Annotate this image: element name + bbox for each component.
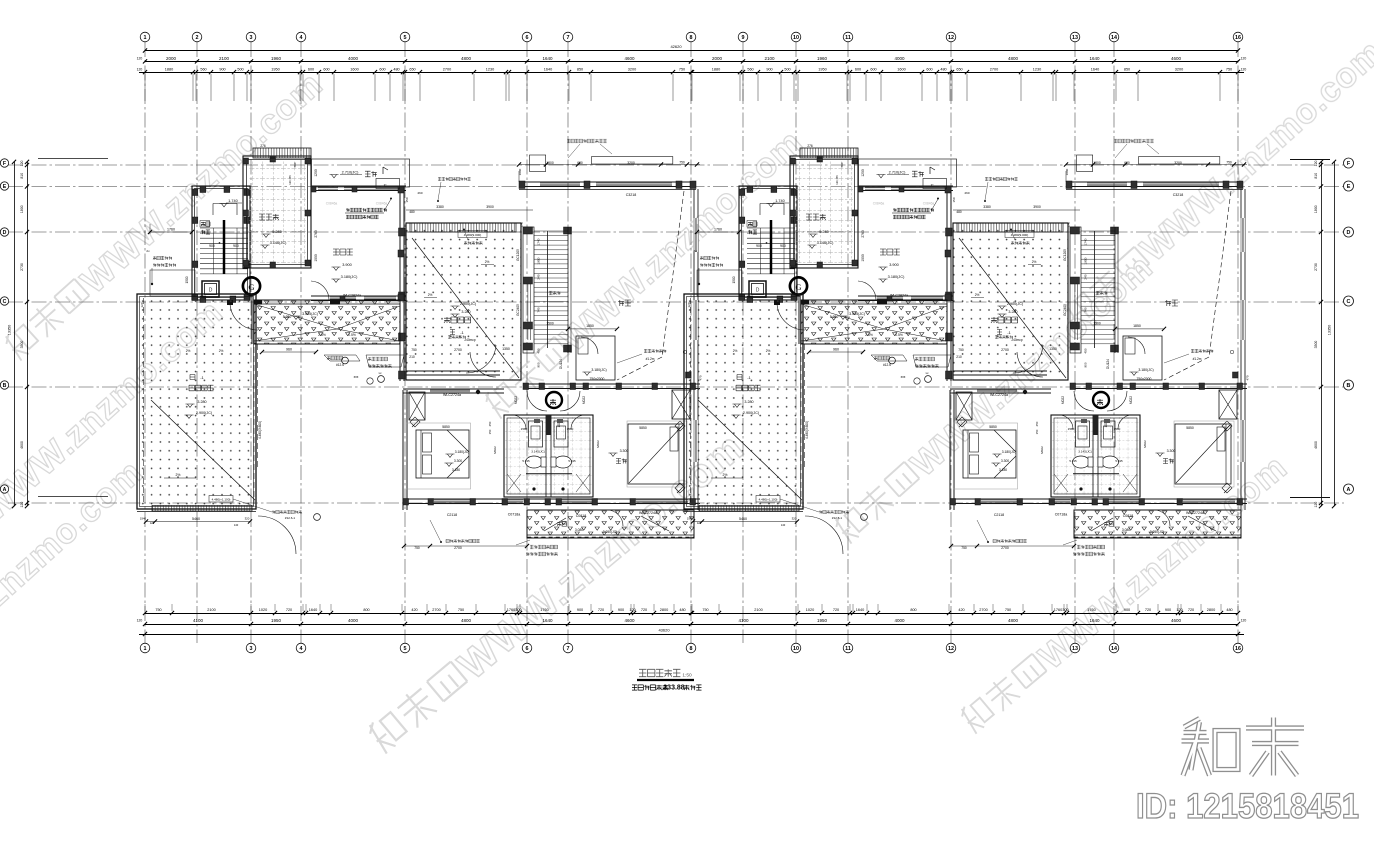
svg-text:900: 900 bbox=[233, 244, 239, 248]
svg-text:5460: 5460 bbox=[192, 517, 200, 521]
svg-text:480: 480 bbox=[940, 68, 946, 72]
svg-text:4.480(+1.100): 4.480(+1.100) bbox=[212, 498, 231, 502]
svg-text:120: 120 bbox=[1241, 67, 1247, 71]
svg-text:6: 6 bbox=[526, 35, 529, 41]
svg-text:2800: 2800 bbox=[1207, 608, 1215, 612]
svg-text:900: 900 bbox=[1165, 608, 1171, 612]
svg-text:4000: 4000 bbox=[348, 618, 359, 623]
svg-text:420: 420 bbox=[958, 608, 964, 612]
svg-text:3.145(JC): 3.145(JC) bbox=[531, 450, 545, 454]
svg-text:5: 5 bbox=[404, 646, 407, 652]
svg-text:720: 720 bbox=[641, 608, 647, 612]
svg-text:4000: 4000 bbox=[894, 618, 905, 623]
svg-text:3.146(JC): 3.146(JC) bbox=[270, 241, 287, 245]
svg-text:12: 12 bbox=[948, 35, 954, 41]
svg-text:1020: 1020 bbox=[259, 608, 267, 612]
svg-text:900: 900 bbox=[537, 362, 541, 367]
svg-text:2700: 2700 bbox=[443, 68, 451, 72]
svg-text:WLC2724a: WLC2724a bbox=[443, 393, 461, 397]
svg-text:120: 120 bbox=[140, 302, 144, 307]
svg-text:1640: 1640 bbox=[544, 68, 552, 72]
svg-text:1230: 1230 bbox=[1033, 68, 1041, 72]
svg-text:8: 8 bbox=[690, 646, 693, 652]
svg-text:1850: 1850 bbox=[586, 324, 594, 328]
svg-text:720: 720 bbox=[833, 608, 839, 612]
svg-text:560: 560 bbox=[200, 68, 206, 72]
svg-text:3: 3 bbox=[250, 35, 253, 41]
svg-text:1020: 1020 bbox=[806, 608, 814, 612]
svg-text:900: 900 bbox=[209, 244, 215, 248]
svg-text:600: 600 bbox=[855, 68, 861, 72]
svg-text:1940: 1940 bbox=[140, 517, 147, 521]
svg-text:3200: 3200 bbox=[1175, 68, 1183, 72]
svg-text:4600: 4600 bbox=[20, 441, 24, 449]
svg-text:2700: 2700 bbox=[432, 608, 440, 612]
svg-text:13350: 13350 bbox=[1328, 325, 1332, 336]
svg-text:F: F bbox=[3, 161, 6, 167]
svg-text:1950: 1950 bbox=[537, 257, 541, 264]
svg-text:#12.6-1: #12.6-1 bbox=[285, 516, 296, 520]
svg-text:D: D bbox=[1347, 230, 1351, 236]
svg-text:C0846a: C0846a bbox=[326, 202, 338, 206]
svg-text:M022: M022 bbox=[514, 396, 518, 404]
svg-text:2: 2 bbox=[196, 35, 199, 41]
svg-text:E: E bbox=[1347, 184, 1351, 190]
svg-text:2%: 2% bbox=[186, 349, 191, 353]
svg-text:720: 720 bbox=[598, 608, 604, 612]
svg-text:750: 750 bbox=[679, 161, 685, 165]
svg-text:4: 4 bbox=[300, 646, 303, 652]
svg-text:750: 750 bbox=[458, 608, 464, 612]
svg-text:1800: 1800 bbox=[20, 205, 24, 213]
svg-text:2100: 2100 bbox=[754, 608, 762, 612]
svg-text:750: 750 bbox=[1226, 68, 1232, 72]
svg-text:2100: 2100 bbox=[764, 56, 775, 61]
svg-text:C0718a: C0718a bbox=[508, 513, 521, 517]
svg-text:600: 600 bbox=[870, 68, 876, 72]
svg-text:2730: 2730 bbox=[1314, 263, 1318, 271]
svg-text:1:50: 1:50 bbox=[682, 673, 692, 679]
svg-text:3900: 3900 bbox=[486, 205, 494, 209]
svg-text:120: 120 bbox=[1314, 160, 1318, 166]
svg-text:120: 120 bbox=[150, 521, 155, 525]
svg-text:120: 120 bbox=[137, 619, 143, 623]
svg-text:140: 140 bbox=[234, 523, 239, 527]
svg-text:4600: 4600 bbox=[624, 618, 635, 623]
svg-text:43620: 43620 bbox=[658, 628, 670, 633]
svg-text:500: 500 bbox=[237, 68, 243, 72]
svg-text:GC1205: GC1205 bbox=[516, 249, 520, 261]
svg-text:4800: 4800 bbox=[461, 618, 472, 623]
svg-text:720: 720 bbox=[1145, 608, 1151, 612]
svg-text:1740: 1740 bbox=[537, 238, 541, 245]
svg-text:4600: 4600 bbox=[1171, 618, 1182, 623]
svg-text:650: 650 bbox=[956, 68, 962, 72]
svg-text:C0846a: C0846a bbox=[376, 202, 388, 206]
svg-text:42620: 42620 bbox=[670, 44, 682, 49]
svg-text:1950: 1950 bbox=[818, 68, 826, 72]
svg-text:xxx: xxx bbox=[354, 375, 359, 379]
svg-text:1640: 1640 bbox=[542, 56, 553, 61]
svg-text:16: 16 bbox=[1235, 646, 1241, 652]
svg-text:2100: 2100 bbox=[219, 56, 230, 61]
svg-text:720: 720 bbox=[1188, 608, 1194, 612]
svg-text:900: 900 bbox=[219, 68, 225, 72]
svg-text:120,155: 120,155 bbox=[288, 175, 292, 185]
svg-text:1960: 1960 bbox=[817, 56, 828, 61]
svg-text:B: B bbox=[3, 383, 7, 389]
svg-text:240mcp: 240mcp bbox=[464, 338, 476, 342]
svg-text:1200: 1200 bbox=[314, 169, 318, 177]
svg-text:2800: 2800 bbox=[660, 608, 668, 612]
svg-text:120: 120 bbox=[629, 608, 635, 612]
svg-text:810: 810 bbox=[20, 173, 24, 179]
svg-text:120: 120 bbox=[1241, 57, 1247, 61]
svg-text:1600: 1600 bbox=[897, 68, 905, 72]
svg-text:5.285: 5.285 bbox=[272, 230, 282, 234]
svg-text:120: 120 bbox=[1241, 619, 1247, 623]
svg-text:13350: 13350 bbox=[8, 325, 12, 336]
svg-text:750: 750 bbox=[1005, 608, 1011, 612]
svg-text:260: 260 bbox=[417, 191, 422, 195]
svg-text:650: 650 bbox=[409, 68, 415, 72]
svg-text:2.5%: 2.5% bbox=[318, 333, 326, 337]
svg-text:A: A bbox=[1347, 487, 1351, 493]
svg-text:M022: M022 bbox=[596, 440, 600, 448]
svg-text:1230: 1230 bbox=[486, 68, 494, 72]
svg-text:2%: 2% bbox=[176, 473, 181, 477]
svg-text:1640: 1640 bbox=[1091, 68, 1099, 72]
svg-text:3.180(JC): 3.180(JC) bbox=[341, 275, 358, 279]
svg-text:480: 480 bbox=[1226, 608, 1232, 612]
svg-text:1580: 1580 bbox=[567, 427, 574, 431]
svg-text:2%: 2% bbox=[485, 260, 490, 264]
svg-text:750: 750 bbox=[155, 608, 161, 612]
svg-text:600: 600 bbox=[926, 68, 932, 72]
svg-text:3300: 3300 bbox=[20, 341, 24, 349]
svg-text:C: C bbox=[3, 299, 7, 305]
svg-text:C: C bbox=[1347, 299, 1351, 305]
svg-text:11: 11 bbox=[845, 35, 851, 41]
svg-text:750: 750 bbox=[702, 608, 708, 612]
svg-text:2730: 2730 bbox=[20, 263, 24, 271]
svg-text:D: D bbox=[209, 288, 213, 294]
svg-text:9: 9 bbox=[742, 35, 745, 41]
svg-text:750x2000: 750x2000 bbox=[590, 377, 605, 381]
svg-text:240: 240 bbox=[537, 274, 541, 279]
svg-text:1880: 1880 bbox=[712, 68, 720, 72]
svg-text:1: 1 bbox=[144, 646, 147, 652]
svg-text:#1.2m: #1.2m bbox=[646, 357, 655, 361]
svg-text:150: 150 bbox=[488, 429, 492, 434]
svg-text:5850: 5850 bbox=[639, 426, 647, 430]
svg-text:3.300: 3.300 bbox=[454, 459, 462, 463]
svg-text:4800: 4800 bbox=[1008, 56, 1019, 61]
svg-text:4.480(3.600): 4.480(3.600) bbox=[258, 421, 262, 439]
svg-text:1950: 1950 bbox=[271, 68, 279, 72]
svg-text:A: A bbox=[3, 487, 7, 493]
svg-text:750: 750 bbox=[411, 348, 417, 352]
svg-text:800: 800 bbox=[910, 608, 916, 612]
svg-text:500: 500 bbox=[784, 68, 790, 72]
svg-text:C3218: C3218 bbox=[626, 193, 637, 197]
svg-text:120: 120 bbox=[20, 502, 24, 508]
svg-text:210: 210 bbox=[409, 355, 415, 359]
svg-text:E: E bbox=[3, 184, 7, 190]
svg-text:800: 800 bbox=[363, 608, 369, 612]
svg-text:G: G bbox=[248, 282, 254, 292]
svg-text:4800: 4800 bbox=[1008, 618, 1019, 623]
svg-text:8: 8 bbox=[690, 35, 693, 41]
svg-text:3.080: 3.080 bbox=[575, 528, 583, 532]
svg-text:12: 12 bbox=[948, 646, 954, 652]
svg-text:276: 276 bbox=[260, 144, 266, 148]
svg-text:4100: 4100 bbox=[193, 618, 204, 623]
svg-text:3300: 3300 bbox=[1314, 341, 1318, 349]
svg-text:16: 16 bbox=[1235, 35, 1241, 41]
svg-text:900: 900 bbox=[1124, 608, 1130, 612]
svg-text:120: 120 bbox=[1314, 502, 1318, 508]
svg-text:600: 600 bbox=[293, 162, 297, 167]
svg-text:4: 4 bbox=[300, 35, 303, 41]
svg-text:320: 320 bbox=[245, 517, 250, 521]
svg-text:3.180: 3.180 bbox=[452, 468, 460, 472]
svg-text:xx: xx bbox=[379, 371, 383, 375]
svg-text:1000: 1000 bbox=[314, 254, 318, 262]
svg-text:3.300: 3.300 bbox=[620, 449, 629, 453]
svg-text:750: 750 bbox=[414, 546, 420, 550]
svg-text:740: 740 bbox=[537, 307, 541, 312]
svg-text:850: 850 bbox=[577, 68, 583, 72]
svg-text:3.280: 3.280 bbox=[461, 310, 470, 314]
svg-text:600: 600 bbox=[379, 68, 385, 72]
svg-text:2x: 2x bbox=[146, 249, 150, 253]
svg-text:480: 480 bbox=[679, 608, 685, 612]
svg-text:JC: JC bbox=[383, 183, 386, 187]
svg-text:1600: 1600 bbox=[350, 68, 358, 72]
svg-text:11: 11 bbox=[845, 646, 851, 652]
svg-text:4000: 4000 bbox=[348, 56, 359, 61]
svg-text:14: 14 bbox=[1111, 35, 1117, 41]
svg-text:850: 850 bbox=[1124, 68, 1130, 72]
svg-text:120: 120 bbox=[137, 57, 143, 61]
svg-text:3.035(JC): 3.035(JC) bbox=[302, 312, 318, 316]
svg-text:680: 680 bbox=[577, 161, 583, 165]
svg-text:900: 900 bbox=[618, 608, 624, 612]
svg-text:450: 450 bbox=[537, 348, 541, 353]
svg-text:B: B bbox=[1347, 383, 1351, 389]
svg-text:1760: 1760 bbox=[507, 608, 515, 612]
svg-text:600: 600 bbox=[323, 68, 329, 72]
svg-text:4800: 4800 bbox=[461, 56, 472, 61]
svg-text:5.280: 5.280 bbox=[283, 315, 292, 319]
svg-text:3: 3 bbox=[250, 646, 253, 652]
svg-text:4600: 4600 bbox=[624, 56, 635, 61]
svg-text:2%: 2% bbox=[428, 293, 433, 297]
svg-text:1950: 1950 bbox=[817, 618, 828, 623]
svg-text:120: 120 bbox=[20, 160, 24, 166]
svg-text:GC2405: GC2405 bbox=[516, 304, 520, 316]
svg-text:2100: 2100 bbox=[207, 608, 215, 612]
svg-text:2%: 2% bbox=[219, 349, 224, 353]
svg-text:3200: 3200 bbox=[627, 161, 635, 165]
svg-text:13: 13 bbox=[1072, 646, 1078, 652]
svg-text:1800: 1800 bbox=[546, 161, 554, 165]
svg-text:3200: 3200 bbox=[628, 68, 636, 72]
svg-text:1640: 1640 bbox=[542, 618, 553, 623]
svg-text:10: 10 bbox=[793, 35, 799, 41]
svg-text:DU124: DU124 bbox=[559, 359, 563, 369]
svg-text:810: 810 bbox=[1314, 173, 1318, 179]
svg-text:150: 150 bbox=[405, 197, 409, 202]
svg-text:3.180(JC): 3.180(JC) bbox=[591, 368, 606, 372]
svg-text:1760: 1760 bbox=[540, 608, 548, 612]
svg-text:0.5%: 0.5% bbox=[348, 333, 356, 337]
svg-text:1640: 1640 bbox=[1089, 618, 1100, 623]
svg-text:2700: 2700 bbox=[454, 546, 462, 550]
svg-text:1760: 1760 bbox=[1054, 608, 1062, 612]
svg-text:14: 14 bbox=[1111, 646, 1117, 652]
svg-text:1640: 1640 bbox=[856, 608, 864, 612]
svg-text:750: 750 bbox=[679, 68, 685, 72]
svg-text:900: 900 bbox=[766, 68, 772, 72]
svg-text:4600: 4600 bbox=[1171, 56, 1182, 61]
svg-text:2700: 2700 bbox=[990, 68, 998, 72]
svg-text:1760: 1760 bbox=[1087, 608, 1095, 612]
svg-text:7: 7 bbox=[567, 646, 570, 652]
svg-text:6: 6 bbox=[526, 646, 529, 652]
svg-text:1500: 1500 bbox=[185, 276, 189, 283]
svg-text:5.195: 5.195 bbox=[568, 459, 576, 463]
svg-text:480: 480 bbox=[409, 210, 415, 214]
svg-text:720: 720 bbox=[286, 608, 292, 612]
svg-text:1760: 1760 bbox=[167, 228, 175, 232]
svg-text:C2118: C2118 bbox=[447, 513, 457, 517]
svg-text:300: 300 bbox=[515, 608, 521, 612]
svg-text:5850: 5850 bbox=[442, 425, 450, 429]
svg-text:3.180(JC): 3.180(JC) bbox=[455, 450, 469, 454]
svg-text:480: 480 bbox=[393, 68, 399, 72]
svg-text:900: 900 bbox=[577, 608, 583, 612]
svg-text:2700: 2700 bbox=[979, 608, 987, 612]
svg-text:3.900: 3.900 bbox=[342, 263, 352, 267]
svg-text:2.900(JC): 2.900(JC) bbox=[460, 302, 476, 306]
svg-text:1640: 1640 bbox=[1089, 56, 1100, 61]
svg-text:300: 300 bbox=[1062, 608, 1068, 612]
svg-text:560: 560 bbox=[747, 68, 753, 72]
svg-text:4600: 4600 bbox=[1314, 441, 1318, 449]
svg-text:1880: 1880 bbox=[165, 68, 173, 72]
svg-text:1.740: 1.740 bbox=[228, 199, 238, 203]
svg-text:3.050(JC): 3.050(JC) bbox=[603, 530, 617, 534]
svg-text:2700: 2700 bbox=[454, 348, 462, 352]
svg-text:1580: 1580 bbox=[521, 427, 528, 431]
svg-text:250: 250 bbox=[488, 421, 492, 426]
svg-text:2000: 2000 bbox=[712, 56, 723, 61]
svg-text:1950: 1950 bbox=[271, 618, 282, 623]
svg-text:1800: 1800 bbox=[1314, 205, 1318, 213]
svg-text:3.280: 3.280 bbox=[197, 400, 206, 404]
svg-text:4100: 4100 bbox=[738, 618, 749, 623]
svg-text:600: 600 bbox=[308, 68, 314, 72]
svg-text:2760: 2760 bbox=[314, 230, 318, 238]
svg-text:2.900(JC): 2.900(JC) bbox=[196, 411, 212, 415]
svg-text:1: 1 bbox=[144, 35, 147, 41]
svg-text:13: 13 bbox=[1072, 35, 1078, 41]
svg-text:7: 7 bbox=[567, 35, 570, 41]
svg-text:120: 120 bbox=[1176, 608, 1182, 612]
svg-text:1500: 1500 bbox=[546, 322, 554, 326]
svg-text:420: 420 bbox=[411, 608, 417, 612]
svg-text:M022: M022 bbox=[582, 396, 586, 404]
svg-text:5: 5 bbox=[404, 35, 407, 41]
svg-text:WLC2824a: WLC2824a bbox=[343, 294, 361, 298]
svg-text:2000: 2000 bbox=[166, 56, 177, 61]
svg-text:120: 120 bbox=[137, 67, 143, 71]
svg-text:ID: 1215818451: ID: 1215818451 bbox=[1136, 787, 1359, 826]
svg-text:M022: M022 bbox=[493, 446, 497, 454]
svg-text:1640: 1640 bbox=[309, 608, 317, 612]
svg-text:1000: 1000 bbox=[518, 168, 522, 175]
svg-text:960: 960 bbox=[286, 348, 292, 352]
svg-text:4000: 4000 bbox=[894, 56, 905, 61]
svg-text:1350: 1350 bbox=[502, 347, 510, 351]
svg-text:5.195: 5.195 bbox=[522, 459, 530, 463]
svg-text:1960: 1960 bbox=[271, 56, 282, 61]
svg-text:D: D bbox=[3, 230, 7, 236]
svg-text:2.710(JC): 2.710(JC) bbox=[342, 171, 359, 175]
svg-text:10: 10 bbox=[793, 646, 799, 652]
svg-text:233.88: 233.88 bbox=[663, 685, 685, 692]
svg-text:3380: 3380 bbox=[436, 205, 444, 209]
